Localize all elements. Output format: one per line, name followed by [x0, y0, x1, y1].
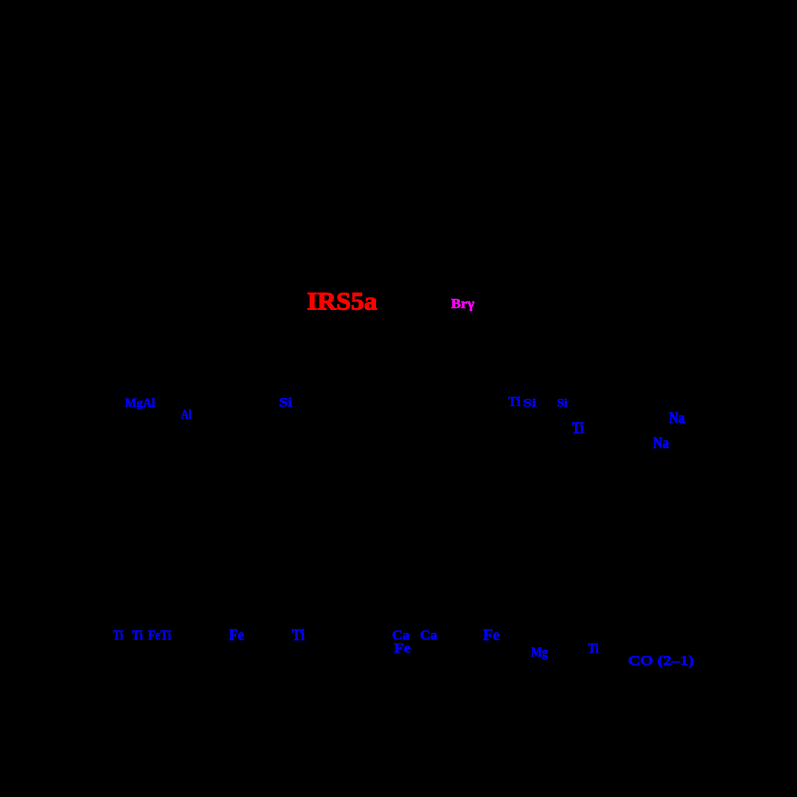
absorption line label Fe+Ti: [148, 629, 171, 643]
absorption line label Al: [181, 409, 191, 422]
absorption line label Ti: [508, 396, 521, 409]
absorption line label Ti: [292, 628, 305, 644]
absorption line label Ti: [572, 421, 584, 437]
absorption line label Ca: [420, 629, 437, 643]
absorption line label Mg+Al: [125, 397, 155, 410]
emission line label Br-gamma: [451, 298, 474, 311]
absorption line label Mg: [531, 646, 548, 660]
absorption line label Si: [279, 397, 292, 409]
absorption line label Na: [669, 411, 685, 427]
absorption line label Fe: [483, 628, 500, 644]
absorption line label Fe: [229, 628, 244, 644]
absorption line label Ti: [132, 629, 143, 643]
absorption line label Na: [653, 436, 669, 452]
absorption line label Si: [557, 398, 568, 410]
absorption line label Ca: [392, 629, 410, 643]
emission line label CO (2-1): [628, 655, 694, 668]
absorption line label Ti: [588, 642, 599, 656]
absorption line label Ti: [113, 629, 123, 643]
source label IRS5a: [307, 289, 377, 315]
absorption line label Si: [523, 398, 536, 410]
absorption line label Fe: [394, 642, 411, 656]
